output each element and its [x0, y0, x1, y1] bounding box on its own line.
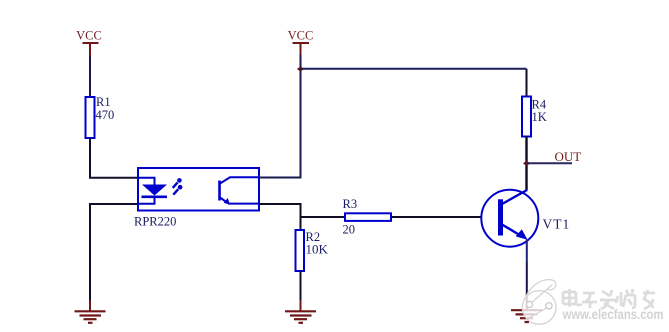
svg-text:www.elecfans.com: www.elecfans.com — [562, 306, 664, 322]
wire optocoupler emitter to node — [259, 204, 301, 230]
LED inside optocoupler — [139, 178, 167, 204]
optocoupler U RPR220 — [134, 168, 259, 229]
svg-text:1K: 1K — [532, 110, 547, 124]
wire optocoupler cathode to ground — [90, 204, 138, 302]
svg-text:RPR220: RPR220 — [134, 215, 176, 229]
node junction at VCC rail — [297, 66, 304, 71]
wire emitter to ground — [526, 240, 528, 263]
ground (middle) — [285, 300, 316, 323]
wire R3 to transistor base — [391, 216, 499, 218]
svg-text:VCC: VCC — [76, 29, 102, 43]
transistor VT1 — [481, 190, 570, 247]
svg-text:R1: R1 — [96, 95, 111, 109]
watermark brand glyphs — [563, 289, 655, 309]
power VCC (left) — [76, 29, 102, 58]
LED emission arrows — [173, 178, 183, 195]
power VCC (middle) — [288, 29, 314, 56]
ground (left) — [75, 300, 106, 323]
wire VCC to R1 — [89, 56, 91, 97]
wire node to R3 — [301, 216, 346, 218]
svg-text:R3: R3 — [343, 197, 358, 211]
wire R1 to optocoupler anode — [90, 138, 138, 178]
phototransistor inside optocoupler — [218, 177, 258, 204]
resistor R3 — [343, 197, 392, 237]
ground (right) — [511, 294, 542, 322]
svg-text:VT1: VT1 — [543, 217, 571, 232]
svg-text:10K: 10K — [306, 242, 329, 257]
resistor R2 — [296, 230, 329, 271]
wire R4 to collector — [525, 137, 527, 191]
wire VCC rail to R4 — [301, 68, 527, 70]
resistor R1 — [86, 95, 115, 138]
wire R2 to ground — [300, 271, 302, 302]
node OUT junction — [523, 161, 530, 166]
svg-text:20: 20 — [343, 223, 356, 237]
svg-text:VCC: VCC — [288, 29, 314, 43]
resistor R4 — [522, 69, 547, 137]
wire VCC2 down to optocoupler collector pin — [259, 55, 301, 178]
svg-text:470: 470 — [96, 108, 115, 122]
wire OUT stub — [527, 162, 573, 164]
watermark logo — [522, 280, 556, 325]
svg-text:OUT: OUT — [555, 149, 582, 164]
